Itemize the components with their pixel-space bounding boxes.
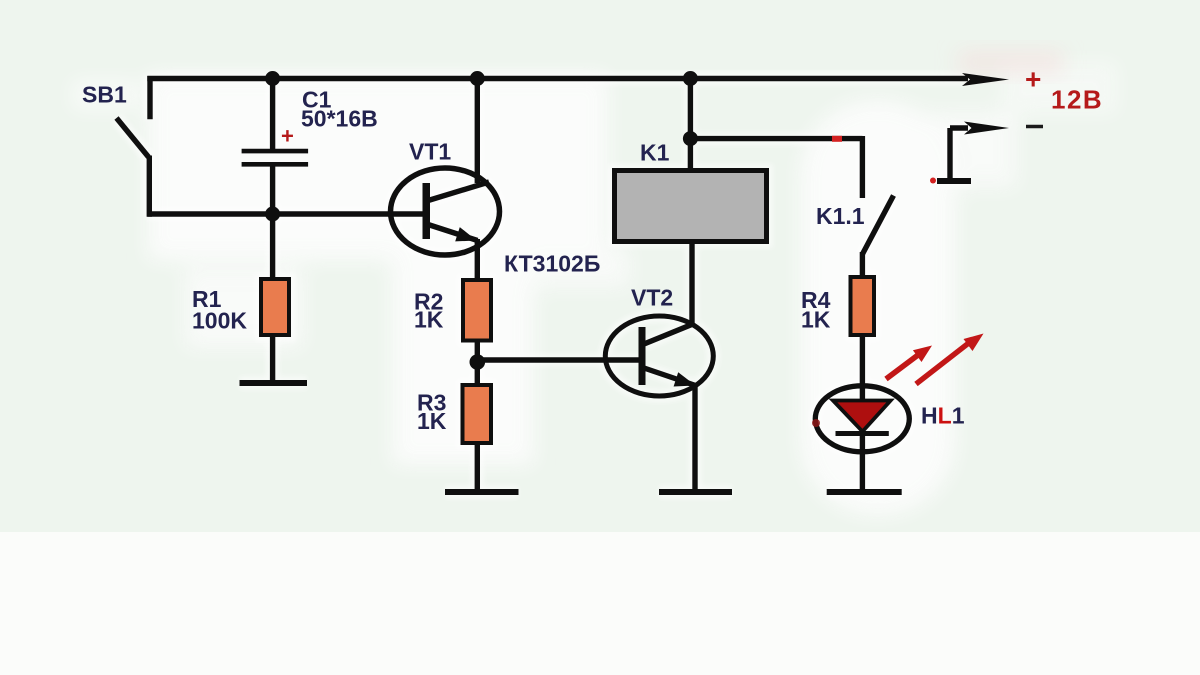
svg-text:КТ3102Б: КТ3102Б bbox=[504, 251, 600, 277]
svg-text:12В: 12В bbox=[1051, 85, 1103, 115]
svg-text:1K: 1K bbox=[801, 306, 831, 332]
svg-text:K1.1: K1.1 bbox=[816, 203, 865, 229]
svg-text:VT1: VT1 bbox=[409, 139, 451, 165]
svg-text:+: + bbox=[1025, 64, 1041, 95]
svg-text:50*16В: 50*16В bbox=[301, 106, 378, 132]
svg-text:+: + bbox=[281, 124, 294, 149]
svg-text:100K: 100K bbox=[192, 308, 247, 334]
svg-text:1K: 1K bbox=[414, 307, 444, 333]
svg-text:K1: K1 bbox=[640, 139, 670, 165]
svg-text:HL1: HL1 bbox=[921, 403, 965, 429]
svg-text:1K: 1K bbox=[417, 408, 447, 434]
svg-text:VT2: VT2 bbox=[631, 285, 673, 311]
svg-text:SB1: SB1 bbox=[82, 82, 127, 108]
